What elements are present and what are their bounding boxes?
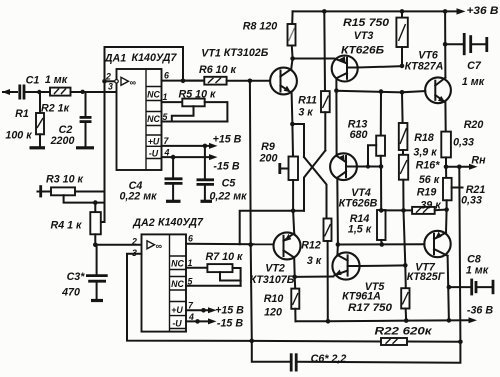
svg-text:+U: +U — [148, 137, 160, 147]
svg-text:3 к: 3 к — [307, 255, 322, 267]
svg-text:R10: R10 — [264, 293, 284, 305]
svg-text:КТ961А: КТ961А — [342, 291, 381, 303]
DA2 cell labels — [171, 259, 184, 329]
resistor R8 — [288, 11, 296, 58]
wire R4 node to DA2 pin2 — [95, 244, 141, 246]
VT5 base wire — [360, 263, 408, 268]
svg-text:VT3: VT3 — [354, 30, 374, 42]
label R5 10к — [179, 89, 216, 101]
DA1 pin5 wire — [162, 112, 228, 122]
transistor VT7 — [424, 231, 450, 257]
svg-text:56 к: 56 к — [419, 174, 440, 186]
VT3 collector wire — [335, 78, 337, 90]
ground bar C2 — [76, 146, 94, 149]
node C8 tap junction — [447, 285, 452, 290]
resistor R16* — [399, 155, 408, 211]
label VT7 КТ825Г — [407, 262, 445, 284]
label R3 10к — [46, 174, 83, 186]
svg-text:R11: R11 — [298, 95, 317, 107]
node R9/VT2 emitter junction — [291, 209, 296, 214]
svg-text:5: 5 — [163, 112, 168, 122]
VT4 emitter vertical — [335, 91, 337, 156]
svg-text:Rн: Rн — [471, 155, 486, 167]
capacitor C2 — [80, 92, 92, 147]
svg-text:1 мк: 1 мк — [45, 74, 68, 86]
resistor R15 — [396, 11, 407, 65]
svg-text:1: 1 — [188, 258, 193, 268]
op-amp DA2 symbol — [147, 241, 163, 251]
svg-text:0,22 мк: 0,22 мк — [119, 191, 157, 203]
VT4 collector wire — [336, 178, 339, 245]
resistor R4 — [90, 203, 101, 245]
label R2 1к — [41, 103, 70, 115]
svg-text:4: 4 — [188, 312, 194, 322]
wire R14 top to R19 — [381, 209, 412, 211]
svg-text:R15 750: R15 750 — [343, 17, 389, 29]
trimmer R7 — [207, 264, 240, 286]
svg-text:2200: 2200 — [50, 135, 75, 147]
label R11 3к — [298, 95, 317, 119]
label R4 1к — [51, 220, 83, 232]
resistor R9 — [289, 124, 299, 211]
svg-text:R17 750: R17 750 — [348, 302, 392, 314]
transistor VT4 — [330, 153, 357, 180]
svg-text:680: 680 — [350, 129, 368, 141]
op-amp DA2 box — [142, 234, 187, 331]
label DA1 К140УД7 — [104, 52, 178, 65]
wire VT2 collector to VT5 emitter — [295, 276, 334, 278]
svg-text:КТ626В: КТ626В — [339, 198, 378, 210]
svg-text:КТ3107Б: КТ3107Б — [250, 274, 295, 286]
R3 wiper wire — [64, 195, 105, 202]
DA1 pin4 wire -15V — [162, 148, 218, 161]
label R10 120 — [264, 293, 284, 319]
label R18 3,9к R16* 56к R19 39к — [413, 132, 441, 212]
label R21 0,33 — [461, 184, 485, 207]
left feedback vertical — [104, 81, 106, 202]
svg-text:100 к: 100 к — [5, 130, 32, 142]
DA1 pin 2 wire — [102, 79, 118, 84]
svg-text:КТ3102Б: КТ3102Б — [224, 47, 269, 59]
svg-text:R3 10 к: R3 10 к — [46, 174, 83, 186]
svg-text:+36 В: +36 В — [467, 5, 499, 17]
DA2 pin4 wire -15V — [186, 312, 217, 324]
node R4/C3 junction — [93, 243, 98, 248]
DA1 pin labels 2 3 — [105, 72, 113, 92]
label C5 0,22мк — [209, 178, 247, 203]
VT1 emitter wire — [291, 93, 294, 124]
svg-text:R9: R9 — [261, 141, 275, 153]
wire R16 node down to VT5 base node — [404, 210, 406, 265]
svg-text:R8 120: R8 120 — [243, 21, 278, 33]
label R7 10к — [206, 251, 243, 263]
capacitor C8 — [449, 279, 493, 296]
svg-text:0,33: 0,33 — [461, 195, 482, 207]
wire VT1 emitter jog to X — [292, 124, 304, 157]
svg-text:КТ825Г: КТ825Г — [407, 271, 445, 283]
svg-text:С7: С7 — [467, 60, 482, 72]
label DA2 К140УД7 — [132, 217, 204, 230]
transistor VT1 — [270, 68, 297, 95]
resistor R17 — [401, 265, 409, 320]
svg-text:3,9 к: 3,9 к — [413, 147, 437, 159]
label R1 100к — [5, 108, 32, 142]
label R6 10к — [199, 64, 236, 76]
label R13 680 — [348, 119, 368, 142]
svg-text:R20: R20 — [464, 119, 484, 131]
capacitor C7 — [445, 33, 487, 55]
svg-text:2: 2 — [131, 237, 137, 247]
node R4 top junction — [93, 200, 98, 205]
resistor R1 — [36, 92, 44, 147]
transistor VT2 — [274, 232, 301, 259]
svg-text:0,33: 0,33 — [453, 137, 474, 149]
svg-text:VT2: VT2 — [265, 263, 285, 275]
label C2 2200 — [50, 124, 75, 147]
svg-text:470: 470 — [61, 287, 80, 299]
R13 side tap wire — [366, 145, 376, 168]
feedback vertical from VT1 base to R22 node — [248, 79, 255, 344]
DA1 pin1 wire — [162, 92, 183, 102]
node output junction — [444, 165, 462, 170]
svg-text:1: 1 — [163, 92, 168, 102]
label R15 750 / VT3 / КТ626Б — [341, 17, 389, 57]
VT7 collector wire — [448, 256, 449, 321]
label +15 В (DA2) — [215, 305, 244, 317]
svg-text:-15 В: -15 В — [213, 161, 239, 173]
svg-text:NC: NC — [147, 114, 160, 124]
resistor R11 — [321, 11, 330, 150]
label R14 1,5к — [348, 213, 372, 236]
svg-text:R2 1к: R2 1к — [41, 103, 70, 115]
svg-text:C1: C1 — [26, 75, 40, 87]
transistor VT6 — [425, 77, 451, 103]
node R13 top junction — [379, 89, 384, 94]
node VT2 collector junction — [292, 275, 297, 280]
label R12 3к — [301, 240, 322, 268]
node A junction — [37, 90, 41, 94]
svg-text:∞: ∞ — [130, 78, 137, 88]
node VT4/VT5 collector junction — [336, 242, 341, 247]
label VT5 КТ961А R17 750 — [342, 281, 392, 314]
label R9 200 — [259, 141, 278, 165]
svg-text:6: 6 — [164, 71, 169, 81]
VT6 emitter wire — [444, 102, 446, 131]
resistor R10 — [291, 277, 299, 321]
label Rн — [471, 155, 486, 167]
svg-text:VT1: VT1 — [201, 48, 221, 60]
label -15 В (DA1) — [213, 161, 239, 173]
svg-text:R6 10 к: R6 10 к — [199, 64, 236, 76]
DA2 pin2 pin3 labels — [131, 237, 137, 259]
DA2 pin5 wire — [186, 277, 241, 287]
wire VT5 collector to VT7 base — [338, 243, 425, 245]
VT2 collector wire — [293, 258, 296, 277]
node R22 right junction — [458, 340, 463, 345]
ground bar R1 — [30, 146, 46, 149]
svg-text:NC: NC — [171, 279, 184, 289]
node B junction — [80, 90, 84, 94]
X crossing wires — [304, 151, 327, 219]
rail junction R15 — [400, 9, 405, 14]
DA1 pin7 wire +15V — [162, 136, 218, 149]
label C1 1мк — [26, 74, 68, 87]
-36V rail — [296, 317, 478, 323]
node R17 bottom junction — [404, 318, 409, 323]
label C4 0,22мк — [119, 180, 157, 203]
svg-text:R19: R19 — [417, 187, 437, 199]
svg-text:1 мк: 1 мк — [462, 76, 485, 88]
wire R8 node to VT3 emitter — [293, 58, 334, 60]
trimmer R5 — [172, 99, 228, 122]
svg-text:-U: -U — [172, 319, 182, 329]
svg-text:R22 620к: R22 620к — [375, 326, 433, 338]
wire to R4 tap — [101, 203, 105, 222]
label С6* 2,2 — [311, 353, 347, 365]
svg-text:-15 В: -15 В — [217, 318, 243, 330]
label -15 В (DA2) — [217, 318, 243, 330]
label VT6 КТ827А — [405, 50, 444, 73]
node R8/VT1/VT3 junction — [290, 56, 295, 61]
resistor R18 — [399, 92, 408, 155]
svg-text:R16*: R16* — [416, 160, 441, 172]
DA1 output pin6 wire — [162, 71, 205, 84]
svg-text:R4 1 к: R4 1 к — [51, 220, 83, 232]
node R16/R19 junction — [401, 208, 406, 213]
svg-text:39 к: 39 к — [420, 200, 441, 212]
resistor R13 — [376, 92, 385, 167]
svg-text:-36 В: -36 В — [467, 305, 493, 317]
svg-text:R5 10 к: R5 10 к — [179, 89, 216, 101]
label +15 В (DA1) — [213, 134, 242, 146]
svg-text:-U: -U — [149, 149, 159, 159]
DA2 output pin6 wire — [186, 234, 274, 245]
VT6 collector wire — [443, 9, 448, 78]
label C8 1мк — [466, 254, 489, 277]
capacitor C5 — [197, 146, 215, 201]
resistor R22 — [252, 338, 461, 345]
svg-text:К140УД7: К140УД7 — [132, 52, 178, 64]
svg-text:R1: R1 — [15, 108, 29, 120]
node VT1 emitter junction — [290, 122, 295, 127]
svg-text:3: 3 — [108, 82, 113, 92]
label VT2 КТ3107Б — [250, 263, 295, 287]
node R14 top junction — [379, 208, 384, 213]
node VT6 base junction — [400, 90, 405, 95]
label C3* 470 — [61, 271, 85, 299]
VT7 emitter wire — [444, 207, 449, 232]
svg-text:5: 5 — [188, 277, 193, 287]
DA2 pin7 wire +15V — [186, 301, 217, 314]
wire to VT6 base — [402, 91, 425, 92]
label R8 120 — [243, 21, 278, 33]
VT4 base wire — [357, 164, 384, 169]
resistor R3 — [38, 185, 105, 197]
rail junction R11 — [322, 9, 327, 14]
svg-text:ДА2: ДА2 — [132, 217, 154, 229]
svg-text:КТ626Б: КТ626Б — [341, 45, 384, 57]
DA2 pin3 wire loop — [127, 254, 252, 341]
R9 left terminal — [280, 163, 289, 174]
label VT1 КТ3102Б — [201, 47, 269, 60]
label C7 1мк — [462, 60, 485, 88]
svg-text:∞: ∞ — [156, 241, 163, 251]
svg-text:С3*: С3* — [67, 271, 86, 283]
DA1 feedback wire over top — [105, 47, 184, 81]
svg-text:С5: С5 — [222, 178, 237, 190]
wire VT3 collector to VT6 base node — [336, 91, 402, 93]
op-amp DA1 symbol — [121, 77, 137, 87]
node R14 bottom junction — [380, 242, 385, 247]
label VT4 КТ626В — [339, 187, 378, 210]
resistor R2 — [39, 88, 83, 96]
input terminal arrow — [2, 89, 17, 95]
svg-text:+U: +U — [171, 305, 183, 315]
svg-text:+15 В: +15 В — [215, 305, 244, 317]
transistor VT5 — [332, 252, 359, 279]
svg-text:120: 120 — [264, 307, 282, 319]
resistor R14 — [377, 167, 386, 245]
svg-text:NC: NC — [171, 259, 184, 269]
svg-text:0,22 мк: 0,22 мк — [209, 191, 247, 203]
capacitor C6 — [252, 341, 461, 372]
capacitor C1 — [20, 85, 39, 100]
capacitor C4 — [165, 157, 183, 201]
svg-text:R18: R18 — [414, 132, 434, 144]
DA1 cell labels NC NC +U -U — [147, 90, 160, 159]
svg-text:2: 2 — [105, 72, 111, 82]
svg-text:1,5 к: 1,5 к — [348, 224, 372, 236]
resistor R12 — [324, 219, 332, 322]
node C7 tap junction — [443, 42, 448, 47]
svg-text:ДА1: ДА1 — [104, 53, 126, 65]
VT5 collector wire — [336, 245, 339, 256]
node VT3 collector junction — [334, 88, 339, 93]
svg-text:4: 4 — [164, 148, 170, 158]
label -36 В — [467, 305, 493, 317]
output arrow Rн — [446, 164, 478, 170]
VT3 base wire to R15 — [358, 64, 405, 69]
label R20 0,33 — [453, 119, 483, 149]
svg-text:К140УД7: К140УД7 — [158, 217, 204, 229]
VT1 collector wire — [291, 59, 292, 70]
output vertical wire — [459, 167, 460, 342]
svg-text:С6* 2,2: С6* 2,2 — [311, 353, 347, 365]
label +36 В — [467, 5, 499, 17]
label R22 620к — [375, 326, 433, 338]
svg-text:6: 6 — [188, 234, 193, 244]
svg-text:+15 В: +15 В — [213, 134, 242, 146]
svg-text:R12: R12 — [301, 240, 321, 252]
svg-text:200: 200 — [259, 153, 278, 165]
svg-text:NC: NC — [147, 90, 160, 100]
resistor R20 — [441, 132, 451, 167]
svg-text:КТ827А: КТ827А — [405, 61, 444, 73]
+36V rail — [293, 8, 466, 14]
DA2 pin1 wire — [186, 258, 207, 268]
wire to DA1 pin3 — [83, 91, 117, 93]
resistor R6 — [183, 77, 270, 85]
svg-text:R7 10 к: R7 10 к — [206, 251, 243, 263]
capacitor C3 — [86, 245, 108, 301]
svg-text:1 мк: 1 мк — [466, 265, 489, 277]
resistor R21 — [443, 167, 463, 210]
emitter-node wire to DA2 area — [240, 211, 304, 244]
VT2 emitter wire — [293, 211, 294, 233]
op-amp DA1 box — [117, 69, 162, 170]
resistor R19 — [412, 207, 447, 214]
svg-text:3 к: 3 к — [298, 107, 313, 119]
transistor VT3 — [332, 56, 358, 82]
